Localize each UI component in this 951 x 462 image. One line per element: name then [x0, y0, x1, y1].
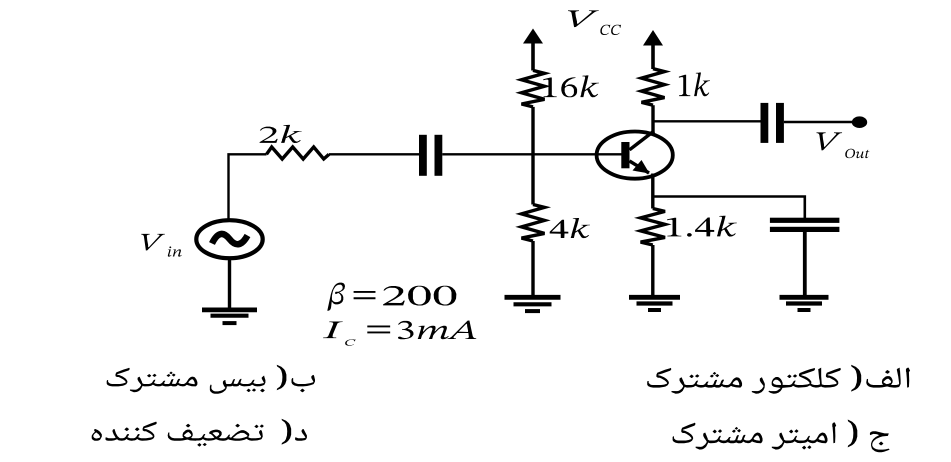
option D: attenuator (د) تضعیف کننده: [92, 419, 307, 447]
label beta = 200: [327, 283, 345, 311]
wire: C1 to base node: [442, 153, 621, 155]
emitter arrowhead: [633, 160, 650, 174]
wire: 4k to ground: [531, 241, 534, 297]
ground (source): [202, 307, 257, 312]
ground (emitter): [629, 295, 680, 300]
ground (divider): [505, 295, 561, 300]
wire: emitter tee to bypass cap: [653, 197, 805, 219]
label 2k: [260, 125, 302, 143]
label Ic = 3mA: [323, 322, 343, 339]
wire: bypass cap to ground: [803, 232, 807, 297]
wire: emitter down: [651, 174, 654, 209]
wire: 1.4k to ground: [651, 245, 654, 297]
ground (bypass): [780, 295, 829, 300]
emitter stroke: [630, 161, 650, 173]
capacitor C1 (input coupling): [419, 135, 427, 176]
label 1k: [679, 73, 710, 97]
wire: 2k to C1: [329, 153, 419, 155]
resistor R2 16k: [522, 70, 545, 107]
resistor R5 1.4k: [641, 209, 665, 246]
wire: C2 to Vout: [784, 121, 852, 123]
wire: collector out to C2: [653, 120, 761, 122]
label Vout: [817, 132, 843, 150]
sine symbol: [212, 234, 248, 244]
Vcc arrow (divider): [523, 29, 543, 44]
base bar: [621, 142, 629, 168]
wire: 16k to 4k through base node: [531, 107, 534, 205]
capacitor C2 (output coupling): [761, 103, 769, 143]
wire: input corner to 2k: [229, 154, 267, 221]
label 1.4k: [667, 216, 737, 237]
option B: common base (ب) بیس مشترک: [107, 365, 315, 394]
Vcc arrow (collector): [643, 30, 663, 46]
capacitor C3 (bypass) plates: [770, 218, 840, 223]
resistor R4 1k: [642, 69, 665, 106]
resistor R3 4k: [522, 205, 545, 242]
resistor R1 2k (horizontal zigzag): [267, 147, 330, 159]
collector stroke: [630, 131, 655, 150]
AC source V1: [196, 220, 262, 258]
node Vout terminal dot: [852, 116, 867, 128]
wire: 1k to collector: [651, 105, 654, 133]
transistor Q1: [597, 132, 673, 179]
label Vcc: [568, 10, 599, 27]
label 16k: [543, 75, 599, 97]
label 4k: [550, 218, 590, 238]
wire: source to ground: [228, 258, 231, 308]
option A: common collector (الف) کلکتور مشترک: [647, 365, 910, 394]
label Vin: [141, 234, 165, 251]
option C: common emitter (ج) امیتر مشترک: [673, 420, 890, 453]
